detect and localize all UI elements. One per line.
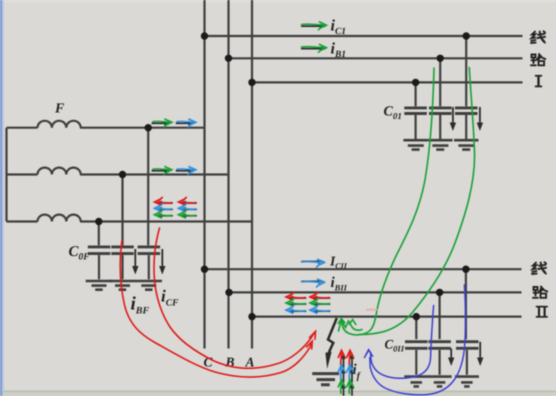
svg-text:A: A xyxy=(245,355,255,370)
svg-text:F: F xyxy=(54,102,65,117)
